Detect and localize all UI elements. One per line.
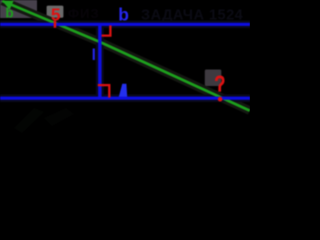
red question mark xyxy=(216,77,223,92)
svg-text:b: b xyxy=(118,4,129,24)
highlight box behind ? xyxy=(205,70,222,87)
highlight box behind 5 xyxy=(47,6,64,18)
green ray (incident light ray) xyxy=(2,1,250,111)
blue vertical line (normal / depth) xyxy=(98,23,101,99)
svg-text:ФИЗ: ФИЗ xyxy=(68,6,100,21)
red tick below 5 to surface xyxy=(54,21,57,28)
halo glow top surface line xyxy=(0,21,250,29)
faint bottom-left smudges xyxy=(14,108,44,133)
blue triangle arrowhead at bottom surface xyxy=(119,84,127,97)
highlight box top-left xyxy=(0,0,37,18)
red right-angle mark bottom xyxy=(98,85,110,98)
green ray arrowhead xyxy=(2,1,14,10)
red right-angle mark top xyxy=(102,25,111,35)
svg-text:l: l xyxy=(92,47,96,64)
top blue surface line xyxy=(0,23,250,26)
red dot of question mark on bottom surface xyxy=(218,97,223,102)
halo glow around green ray (jpeg ringing) xyxy=(2,1,250,111)
bottom blue surface line xyxy=(0,97,250,100)
halo glow vertical line xyxy=(96,23,104,99)
svg-text:b: b xyxy=(5,5,13,20)
halo glow bottom surface line xyxy=(0,94,250,102)
